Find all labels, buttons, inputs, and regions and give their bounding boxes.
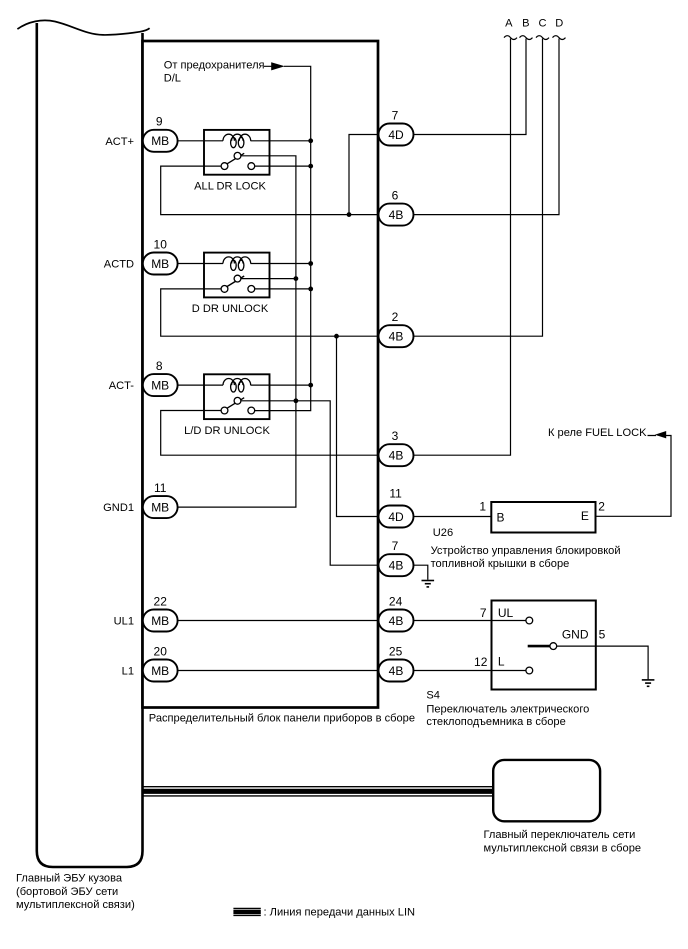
relay 2 switch arm <box>227 276 244 287</box>
svg-text:4D: 4D <box>388 128 404 142</box>
wire: relay2 NC to fuse line <box>255 288 311 290</box>
svg-text:U26: U26 <box>433 527 453 539</box>
wire: relay2 common to pin 2 4B <box>161 289 379 336</box>
svg-text:8: 8 <box>156 359 163 373</box>
svg-text:MB: MB <box>151 614 169 628</box>
svg-text:2: 2 <box>392 310 399 324</box>
LIN data line band <box>142 787 493 796</box>
svg-text:MB: MB <box>151 257 169 271</box>
relay D DR UNLOCK box <box>204 253 270 298</box>
svg-text:C: C <box>538 18 546 30</box>
relay 1 contacts <box>221 152 255 169</box>
U26 fuel lid lock control box <box>491 502 595 533</box>
connector oval MB pin 8 <box>143 374 178 396</box>
svg-text:B: B <box>522 18 529 30</box>
wire: MB8 to coil3 / coil3 to fuse line <box>178 384 311 386</box>
connector oval MB pin 9 <box>143 124 414 682</box>
connector oval 4D pin 11 <box>379 506 414 528</box>
svg-text:MB: MB <box>151 500 169 514</box>
svg-text:9: 9 <box>156 115 163 129</box>
relay 2 contacts <box>221 275 255 292</box>
svg-text:A: A <box>505 18 513 30</box>
S4 power window switch box <box>492 601 596 690</box>
svg-text:3: 3 <box>392 429 399 443</box>
connector oval 4B pin 25 <box>379 660 414 682</box>
FUEL LOCK arrowhead <box>655 431 666 438</box>
instrument panel junction block <box>143 41 379 708</box>
svg-text:7: 7 <box>480 606 487 620</box>
wire: fuse feed down to relay NC contacts <box>255 66 311 410</box>
svg-text:2: 2 <box>598 500 605 514</box>
wire: L1 MB to 25 4B <box>178 670 379 672</box>
svg-text:MB: MB <box>151 134 169 148</box>
svg-text:4B: 4B <box>389 449 404 463</box>
legend LIN symbol <box>233 908 260 915</box>
svg-text:Распределительный блок панели: Распределительный блок панели приборов в… <box>149 712 415 724</box>
relay coil 1 <box>223 134 251 148</box>
svg-text:11: 11 <box>154 481 167 495</box>
junction relay2 NC to fuse line <box>308 287 313 292</box>
wavy break line A <box>504 36 517 40</box>
svg-text:ALL DR LOCK: ALL DR LOCK <box>194 181 266 193</box>
svg-text:L/D DR UNLOCK: L/D DR UNLOCK <box>184 425 270 437</box>
fuse feed arrowhead <box>271 62 285 70</box>
connector oval 4B pin 7b <box>379 554 414 576</box>
svg-text:4B: 4B <box>389 664 404 678</box>
svg-text:MB: MB <box>151 664 169 678</box>
svg-text:4B: 4B <box>389 208 404 222</box>
junction on 4B2 wire <box>334 334 339 339</box>
svg-text:Главный ЭБУ кузова: Главный ЭБУ кузова <box>16 873 123 885</box>
svg-text:GND: GND <box>562 628 589 642</box>
svg-text:S4: S4 <box>426 690 440 702</box>
multiplex master switch rounded box <box>493 760 600 821</box>
svg-text:4B: 4B <box>389 330 404 344</box>
ground symbol near S4 <box>642 680 655 686</box>
S4 switch arm <box>528 645 550 648</box>
svg-text:20: 20 <box>154 644 168 658</box>
svg-text:мультиплексной связи в сборе: мультиплексной связи в сборе <box>484 842 642 854</box>
svg-text:24: 24 <box>389 594 403 608</box>
relay 1 switch arm <box>227 153 244 164</box>
svg-text:4B: 4B <box>389 614 404 628</box>
wavy break line B <box>520 36 533 40</box>
junction coil1 to fuse line <box>308 138 313 143</box>
wire: NO contacts chain down to GND1 <box>178 156 296 507</box>
svg-text:От предохранителя: От предохранителя <box>164 60 265 72</box>
svg-text:22: 22 <box>154 594 168 608</box>
svg-text:Главный переключатель сети: Главный переключатель сети <box>484 829 636 841</box>
svg-text:D: D <box>555 18 563 30</box>
main body ECU shape <box>17 20 149 867</box>
wire: 11 4D to U26 pin B <box>414 516 492 518</box>
svg-text:мультиплексной связи): мультиплексной связи) <box>16 899 135 911</box>
svg-text:Устройство управления блокиров: Устройство управления блокировкой <box>431 545 621 557</box>
junction coil3 to fuse line <box>308 383 313 388</box>
svg-text:: Линия передачи данных LIN: : Линия передачи данных LIN <box>264 907 416 919</box>
svg-text:L: L <box>498 654 505 668</box>
wire: 7 4B to ground <box>414 565 428 580</box>
svg-text:7: 7 <box>392 108 399 122</box>
relay coil 3 <box>223 379 251 393</box>
junction coil2 to fuse line <box>308 261 313 266</box>
connector oval 4D pin 7 <box>379 124 414 146</box>
wire: MB9 to coil1 / coil1 to fuse line <box>178 140 311 142</box>
svg-text:1: 1 <box>479 500 486 514</box>
wire: U26 pin E to FUEL LOCK relay <box>596 436 672 517</box>
relay L/D DR UNLOCK box <box>204 374 270 419</box>
svg-text:D/L: D/L <box>164 73 181 85</box>
wavy break line C <box>536 36 549 40</box>
wire: 24 4B to S4 UL contact <box>414 620 526 622</box>
ground symbol near 7 4B <box>422 581 435 587</box>
wire: 2 4B to line C <box>414 39 543 337</box>
svg-text:топливной крышки в сборе: топливной крышки в сборе <box>431 558 570 570</box>
svg-text:E: E <box>581 509 589 523</box>
svg-text:Переключатель электрического: Переключатель электрического <box>426 703 589 715</box>
wire: MB10 to coil2 / coil2 to fuse line <box>178 263 311 265</box>
wire: relay1 common to pin 6 4B <box>161 166 379 215</box>
svg-text:UL: UL <box>498 606 514 620</box>
relay 3 contacts <box>221 397 255 414</box>
relay ALL DR LOCK box <box>204 130 270 175</box>
connector oval 4B pin 3 <box>379 444 414 466</box>
svg-text:6: 6 <box>392 189 399 203</box>
svg-text:11: 11 <box>389 487 402 501</box>
wavy break line D <box>553 36 566 40</box>
wire: 3 4B to line A <box>414 39 511 456</box>
svg-text:4D: 4D <box>388 510 404 524</box>
junction 4D7 link on 4B6 wire <box>347 212 352 217</box>
wire: relay3 NO over to 7 4B <box>241 401 379 565</box>
svg-text:B: B <box>497 511 505 525</box>
svg-text:L1: L1 <box>122 666 134 678</box>
junction relay3 NO on chain <box>294 398 299 403</box>
svg-text:10: 10 <box>154 237 168 251</box>
svg-text:5: 5 <box>599 628 606 642</box>
connector oval MB pin 10 <box>143 253 178 275</box>
svg-text:UL1: UL1 <box>114 616 134 628</box>
wire: pin7 4D link to 6 4B net <box>349 135 379 215</box>
wire: S4 GND pin 5 to ground <box>557 646 648 679</box>
relay 3 switch arm <box>227 398 244 409</box>
svg-text:стеклоподъемника в сборе: стеклоподъемника в сборе <box>426 716 565 728</box>
connector oval 4B pin 6 <box>379 204 414 226</box>
wire: UL1 MB to 24 4B <box>178 620 379 622</box>
wire: 2 4B net down to 11 4D <box>337 336 379 516</box>
svg-text:25: 25 <box>389 644 403 658</box>
svg-text:12: 12 <box>474 655 488 669</box>
wavy torn top of ECU <box>17 20 149 35</box>
svg-text:D DR UNLOCK: D DR UNLOCK <box>192 303 269 315</box>
wire: relay3 common to pin 3 4B <box>161 411 379 456</box>
svg-text:MB: MB <box>151 378 169 392</box>
svg-text:К реле FUEL LOCK: К реле FUEL LOCK <box>548 427 647 439</box>
svg-text:GND1: GND1 <box>103 502 134 514</box>
wire: 7 4D to line B <box>414 39 527 135</box>
svg-text:ACT-: ACT- <box>109 380 135 392</box>
junction relay2 NO on chain <box>294 276 299 281</box>
svg-text:ACT+: ACT+ <box>105 136 134 148</box>
S4 contacts <box>526 617 557 674</box>
wire: relay2 NO to chain <box>241 278 296 280</box>
connector oval 4B pin 24 <box>379 610 414 632</box>
connector oval MB pin 11 <box>143 496 178 518</box>
junction relay1 NC to fuse line <box>308 164 313 169</box>
wire: 6 4B to line D <box>414 39 560 215</box>
relay coil 2 <box>223 257 251 271</box>
svg-text:4B: 4B <box>389 559 404 573</box>
wire: 25 4B to S4 L contact <box>414 670 526 672</box>
wire: relay1 NC to fuse line <box>255 165 311 167</box>
svg-text:ACTD: ACTD <box>104 259 134 271</box>
svg-text:(бортовой ЭБУ сети: (бортовой ЭБУ сети <box>16 886 118 898</box>
connector oval MB pin 20 <box>143 660 178 682</box>
svg-text:7: 7 <box>392 539 399 553</box>
connector oval MB pin 22 <box>143 610 178 632</box>
connector oval 4B pin 2 <box>379 325 414 347</box>
